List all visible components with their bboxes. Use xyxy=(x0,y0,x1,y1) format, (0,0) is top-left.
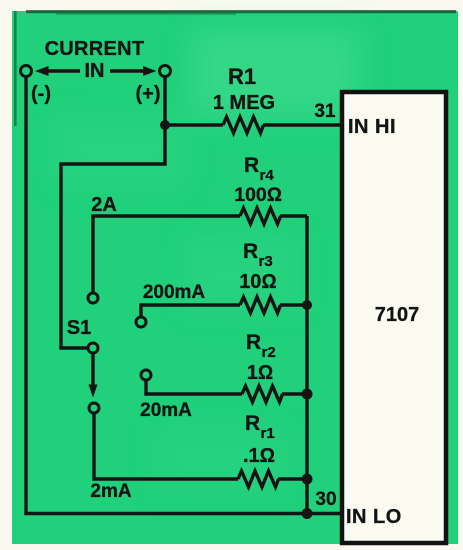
svg-text:200mA: 200mA xyxy=(143,282,206,303)
resistor R1 zigzag xyxy=(223,117,264,133)
arrow right (current in) xyxy=(110,66,157,76)
svg-text:10Ω: 10Ω xyxy=(239,271,277,293)
label IN HI (pin 31) xyxy=(348,116,396,138)
label 10ohm xyxy=(239,271,277,293)
wire Rr3 to bus xyxy=(280,303,307,306)
label CURRENT xyxy=(45,38,145,60)
svg-text:20mA: 20mA xyxy=(140,400,192,421)
resistor Rr3 zigzag xyxy=(240,297,281,313)
svg-text:100Ω: 100Ω xyxy=(234,184,282,206)
label Rr4 xyxy=(244,154,274,184)
svg-text:r4: r4 xyxy=(260,167,275,184)
svg-text:1Ω: 1Ω xyxy=(247,362,273,384)
wire 2mA contact down and right to Rr1 xyxy=(94,413,238,479)
resistor Rr4 zigzag xyxy=(240,208,281,224)
wire from (+) terminal down to node A xyxy=(163,77,166,125)
label Rr3 xyxy=(243,240,273,270)
svg-text:30: 30 xyxy=(315,489,336,510)
svg-text:R: R xyxy=(245,412,260,435)
svg-text:S1: S1 xyxy=(67,317,91,339)
svg-text:R: R xyxy=(244,154,259,177)
junction dot bus/Rr2 xyxy=(302,389,313,400)
svg-text:2mA: 2mA xyxy=(90,481,131,502)
label (-) xyxy=(31,83,51,105)
label 7107 xyxy=(375,304,420,326)
svg-text:31: 31 xyxy=(314,101,336,122)
pin number 31 xyxy=(314,101,336,122)
top scan shadow edge xyxy=(14,10,456,126)
switch S1 pole contact xyxy=(88,343,98,353)
svg-text:2A: 2A xyxy=(91,194,117,216)
label 100ohm xyxy=(234,184,282,206)
node A junction dot xyxy=(160,120,170,130)
contact 20mA circle xyxy=(141,370,151,380)
contact 2mA circle xyxy=(89,403,99,413)
right bus vertical wire xyxy=(305,216,308,514)
wire node A to R1 xyxy=(165,123,223,126)
svg-text:r2: r2 xyxy=(262,344,276,361)
junction dot bus/bottom wire (pin 30 node) xyxy=(302,508,313,519)
svg-text:R1: R1 xyxy=(228,64,256,89)
label Rr2 xyxy=(246,331,276,361)
wire Rr4 to bus corner xyxy=(280,214,307,217)
svg-text:1 MEG: 1 MEG xyxy=(213,92,275,114)
wire R1 to pin 31 xyxy=(263,123,342,126)
svg-text:IN: IN xyxy=(85,60,105,82)
svg-text:IN LO: IN LO xyxy=(346,506,402,528)
wire Rr1 to bus xyxy=(278,477,307,480)
junction dot bus/Rr1 xyxy=(302,474,313,485)
arrow left (current in) xyxy=(35,66,80,76)
label 1ohm xyxy=(247,362,273,384)
svg-text:(-): (-) xyxy=(31,83,51,105)
terminal (+) xyxy=(160,66,171,77)
contact 2A circle xyxy=(88,293,98,303)
svg-text:(+): (+) xyxy=(136,83,161,105)
wire 20mA contact down to Rr2 xyxy=(146,380,242,394)
svg-text:.1Ω: .1Ω xyxy=(243,445,275,467)
pin number 30 xyxy=(315,489,336,510)
svg-text:r3: r3 xyxy=(259,253,273,270)
wire from (-) terminal down left side and along bottom to pin 30 xyxy=(26,77,342,514)
switch wiper arrow xyxy=(89,353,98,398)
terminal (-) xyxy=(21,66,32,77)
svg-text:CURRENT: CURRENT xyxy=(45,38,145,60)
label (+) xyxy=(136,83,161,105)
svg-text:R: R xyxy=(246,331,261,354)
contact 200mA circle xyxy=(136,317,146,327)
wire node A down-left feed to switch pole xyxy=(61,125,165,348)
label 20mA xyxy=(140,400,192,421)
junction dot bus/Rr3 xyxy=(302,300,312,310)
label IN LO (pin 30) xyxy=(346,506,402,528)
wire Rr2 to bus xyxy=(282,392,307,395)
label 2A xyxy=(91,194,117,216)
svg-text:R: R xyxy=(243,240,258,263)
label R1 xyxy=(228,64,256,89)
wire 200mA contact to Rr3 xyxy=(141,305,240,317)
label Rr1 xyxy=(245,412,275,442)
resistor Rr1 zigzag xyxy=(238,471,279,487)
label 200mA xyxy=(143,282,206,303)
resistor Rr2 zigzag xyxy=(242,386,283,402)
label IN xyxy=(85,60,105,82)
label 1 MEG xyxy=(213,92,275,114)
label .1ohm xyxy=(243,445,275,467)
svg-text:r1: r1 xyxy=(261,425,275,442)
svg-text:7107: 7107 xyxy=(375,304,420,326)
svg-text:IN HI: IN HI xyxy=(348,116,396,138)
label 2mA xyxy=(90,481,131,502)
wire 2A contact up and right to Rr4 xyxy=(93,216,240,293)
IC 7107 body xyxy=(342,92,446,543)
label S1 xyxy=(67,317,91,339)
